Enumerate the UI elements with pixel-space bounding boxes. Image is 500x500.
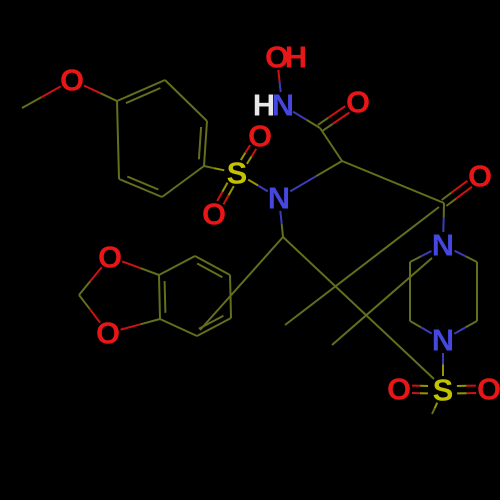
wire O8 to acetal CH2	[79, 295, 100, 323]
wire S1 to N2 (sulfonamide)	[248, 180, 268, 192]
node O7 label	[98, 240, 122, 275]
node O8 label	[96, 316, 120, 351]
svg-text:N: N	[432, 228, 454, 263]
wire O7 to ring-B C1f	[122, 262, 159, 276]
wire long diagonal (delta)	[285, 207, 439, 325]
node O6 label	[468, 159, 492, 194]
double bond amideC=O6	[442, 181, 472, 206]
wire CHb long diagonal (alpha)	[283, 237, 434, 379]
node O1 label	[60, 63, 84, 98]
wire CHalpha to hydroxamate C7	[320, 128, 342, 161]
wire N2 to CHalpha	[290, 161, 342, 191]
node S2 label	[433, 373, 454, 408]
svg-text:O: O	[60, 63, 84, 98]
node O5 label	[346, 85, 370, 120]
node piperazine ring	[410, 251, 477, 334]
wire N2 to CHb	[280, 211, 283, 237]
capacitor-like double bond S1=O4	[217, 183, 234, 205]
svg-text:N: N	[432, 323, 454, 358]
svg-text:N: N	[272, 88, 294, 123]
wire C7 to N1 (amide N-H)	[293, 112, 320, 128]
wire N4 to S2 (methanesulfonyl)	[442, 353, 444, 376]
node B ring benzene (benzodioxole)	[159, 256, 231, 336]
node O-H label	[265, 40, 307, 75]
wire O8 to ring-B C2f	[121, 319, 160, 330]
node H-N label	[253, 88, 294, 123]
svg-text:H: H	[285, 40, 307, 75]
svg-text:O: O	[248, 119, 272, 154]
node N4 label	[432, 323, 454, 358]
svg-text:S: S	[227, 156, 248, 191]
wire methyl-CH3 to O1 (methoxy)	[22, 86, 61, 108]
node O9 label	[387, 372, 411, 407]
node N3 label	[432, 228, 454, 263]
wire ring-A C4 to S1	[204, 166, 224, 170]
wire O7 to acetal CH2	[79, 267, 102, 295]
svg-text:O: O	[477, 372, 500, 407]
svg-text:O: O	[98, 240, 122, 275]
wire CHalpha chain to amide carbon	[342, 161, 444, 203]
wire long diagonal (epsilon)	[332, 258, 432, 345]
svg-text:S: S	[433, 373, 454, 408]
wire N1 to O-H (hydroxylamine)	[278, 70, 280, 92]
wire amide carbon to N3	[442, 203, 445, 232]
capacitor-like double bond S1=O3	[241, 145, 256, 164]
node S1 label	[227, 156, 248, 191]
svg-text:N: N	[268, 181, 290, 216]
double bond S2=O10	[457, 386, 476, 394]
wire O1 to ring-A C1	[84, 86, 117, 102]
svg-text:O: O	[387, 372, 411, 407]
double bond C7=O5	[318, 106, 350, 131]
node N2 label	[268, 181, 290, 216]
node O3 label	[248, 119, 272, 154]
node O4 label	[202, 197, 226, 232]
svg-text:O: O	[202, 197, 226, 232]
svg-text:O: O	[468, 159, 492, 194]
wire CHb to ring-B (beta)	[200, 237, 283, 330]
double bond S2=O9	[412, 386, 428, 394]
wire S2 to methyl CH3	[432, 403, 437, 414]
svg-text:O: O	[96, 316, 120, 351]
svg-text:O: O	[346, 85, 370, 120]
node O10 label	[477, 372, 500, 407]
node A ring benzene (4-methoxyphenyl)	[117, 80, 207, 197]
